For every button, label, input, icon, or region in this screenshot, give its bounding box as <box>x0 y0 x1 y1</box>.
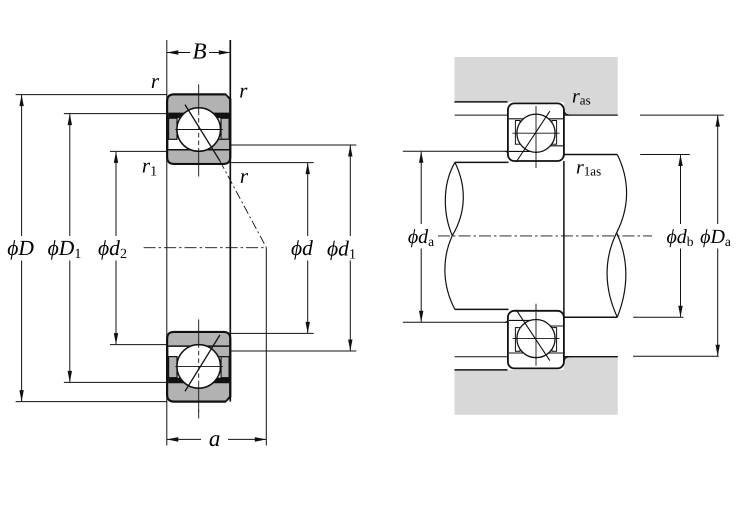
shaft shoulder surface line (top) <box>403 150 507 152</box>
top bearing section <box>167 84 230 176</box>
phi-d1 dimension <box>349 145 351 236</box>
phi-db dimension <box>680 155 682 224</box>
svg-text:ϕd: ϕd <box>291 236 313 260</box>
shaft left break curve (full S) <box>445 162 463 309</box>
shaft seat surface left of bearing (top) <box>455 161 509 163</box>
shaft left break curve (upper lens arc) <box>445 162 455 235</box>
svg-text:r: r <box>240 164 249 188</box>
extension line left face <box>166 40 168 446</box>
shaft right portion top surface <box>564 154 617 156</box>
housing bore edge left of bearing (bottom) <box>455 369 508 371</box>
axis centerline <box>144 247 267 249</box>
right figure axis centerline <box>438 235 652 237</box>
housing lower block <box>455 357 618 415</box>
extension line right face <box>229 40 231 402</box>
housing fillet r_as (bottom) <box>564 357 570 363</box>
svg-text:r: r <box>239 79 248 103</box>
contact angle line dash-dot extension to load centre on axis <box>220 161 267 248</box>
shaft step face at bearing right side <box>563 161 565 317</box>
phi-da dimension <box>420 152 422 224</box>
shaft shoulder surface line (bottom) <box>403 321 507 323</box>
a dimension <box>265 248 267 446</box>
phi-D1 dimension <box>69 114 71 236</box>
shaft fillet r_1as (bottom) <box>505 319 508 322</box>
phi-d dimension <box>307 163 309 236</box>
shaft right portion bottom surface <box>564 316 617 318</box>
housing shoulder bore edge right of bearing (bottom) <box>564 356 618 358</box>
shaft right break curve (full S) <box>607 155 627 318</box>
phi-Da level line left (top) <box>455 114 508 116</box>
bottom bearing centerline extension <box>198 410 200 419</box>
bottom bearing section (mirrored) <box>167 319 230 411</box>
phi-Da dimension <box>717 116 719 225</box>
svg-text:B: B <box>192 39 206 64</box>
housing bore edge left of bearing <box>455 101 508 103</box>
phi-Da level line left (bottom) <box>455 356 508 358</box>
phi-D dimension <box>21 95 23 236</box>
shaft seat surface left of bearing (bottom) <box>455 308 509 310</box>
svg-text:ϕD: ϕD <box>7 236 34 260</box>
housing upper block <box>455 57 618 115</box>
housing shoulder bore edge right of bearing <box>564 114 618 116</box>
bottom bearing section (right figure, mirrored) <box>508 304 564 369</box>
shaft fillet r_1as (top) <box>505 151 508 154</box>
svg-text:r: r <box>151 69 160 93</box>
svg-text:a: a <box>209 426 221 451</box>
housing fillet r_as <box>564 109 570 115</box>
B dimension <box>167 52 231 54</box>
top bearing section (right figure) <box>508 103 564 168</box>
shaft right break curve (lower lens arc) <box>617 233 626 317</box>
phi-d2 dimension <box>115 152 117 236</box>
